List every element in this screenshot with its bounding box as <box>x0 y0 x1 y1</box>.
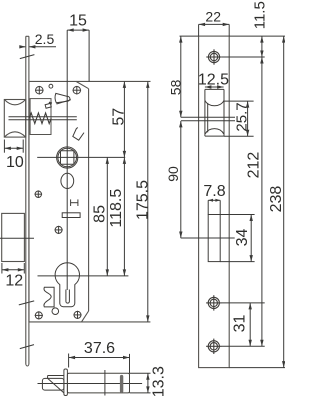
spool cutout (latch opening) <box>205 89 224 136</box>
top screw left <box>35 86 44 95</box>
top edge extension left <box>180 35 199 37</box>
oval follower hole <box>61 173 74 188</box>
cylinder centre line horizontal <box>38 275 129 277</box>
svg-text:10: 10 <box>6 154 24 171</box>
lower screw 1 <box>206 295 221 310</box>
deadbolt centre line <box>0 237 34 239</box>
dimension 25.7 <box>224 101 254 136</box>
dimension 15 <box>67 30 89 81</box>
euro cylinder hole <box>55 263 79 307</box>
svg-text:22: 22 <box>205 9 221 25</box>
spindle hub <box>57 147 78 168</box>
dimension 58 <box>180 36 182 117</box>
svg-text:85: 85 <box>92 205 109 223</box>
waist centre line 2 <box>181 120 235 122</box>
dimension 175.5 line <box>147 81 149 322</box>
small circle bottom <box>52 308 59 315</box>
slot centre line <box>181 237 235 239</box>
svg-text:37.6: 37.6 <box>84 340 115 357</box>
svg-text:7.8: 7.8 <box>203 183 225 200</box>
mid screw <box>55 226 63 234</box>
deadbolt (side view) <box>2 213 25 261</box>
dimension 31 <box>249 303 251 346</box>
strip break mark top <box>20 55 35 59</box>
H slot detail <box>71 199 78 206</box>
dimension 34 <box>220 215 254 262</box>
top screw hole <box>206 49 221 64</box>
latch body spring pin <box>120 377 123 392</box>
dimension 7.8 <box>208 200 220 214</box>
bottom screw left <box>35 311 43 319</box>
small tilted plate <box>45 102 51 108</box>
top screw right <box>73 86 82 95</box>
dimension 37.6 <box>69 354 130 374</box>
svg-text:34: 34 <box>234 229 251 247</box>
latch bolt protruding (side view) <box>4 100 25 138</box>
dimension 85 line <box>106 157 108 276</box>
latch body <box>67 373 129 393</box>
svg-text:12: 12 <box>5 273 23 290</box>
dimension 22 <box>199 24 230 36</box>
dimension 13.3 <box>130 373 151 393</box>
dimension 12.5 <box>205 86 224 88</box>
centre line bottom part <box>38 383 143 385</box>
deadbolt slot <box>208 215 220 262</box>
svg-text:175.5: 175.5 <box>134 180 151 220</box>
lever staple mark <box>73 128 84 141</box>
dimension 212 <box>261 57 263 346</box>
svg-text:238: 238 <box>268 186 285 213</box>
strip break mark bottom <box>20 345 34 349</box>
bottom screw right <box>73 311 81 319</box>
upper-mid screw <box>35 190 43 198</box>
dimension 90 <box>180 121 182 238</box>
svg-text:57: 57 <box>110 108 127 126</box>
bottom edge extension right <box>229 367 285 369</box>
dimension 10 <box>4 140 23 153</box>
screw1 centre line <box>222 56 265 58</box>
svg-text:212: 212 <box>246 152 263 179</box>
svg-text:58: 58 <box>167 79 183 95</box>
slot rectangle <box>62 213 80 218</box>
vertical centre line through hub <box>66 30 68 290</box>
waist centre line 1 <box>181 116 235 118</box>
svg-text:11.5: 11.5 <box>252 1 269 29</box>
dimension 57 line <box>123 81 125 157</box>
latch guide box inside case <box>30 99 51 135</box>
svg-text:15: 15 <box>69 13 87 30</box>
latch spring zigzag <box>29 113 51 124</box>
latch spring rod <box>9 117 77 120</box>
svg-text:25.7: 25.7 <box>234 102 251 131</box>
faceplate strip (side view) <box>26 36 29 366</box>
latch head <box>42 376 64 393</box>
strip break mark mid <box>19 301 34 305</box>
lower screw 2 <box>206 339 221 354</box>
lock case outline <box>29 81 151 322</box>
svg-text:12.5: 12.5 <box>198 72 229 89</box>
svg-text:31: 31 <box>232 315 249 333</box>
flange plate <box>64 369 68 396</box>
dimension 2.5 <box>20 46 56 48</box>
latch body inner line <box>104 370 106 396</box>
spindle centre line horizontal <box>37 156 125 158</box>
dimension 238 <box>283 36 285 368</box>
svg-text:13.3: 13.3 <box>151 366 168 397</box>
dimension 12 <box>2 263 24 274</box>
dimension 11.5 <box>261 36 263 57</box>
svg-text:90: 90 <box>165 166 181 182</box>
top edge extension right <box>229 35 285 37</box>
latch head wedge <box>55 93 71 104</box>
dimension 118.5 line <box>123 157 125 276</box>
spring clip hook <box>44 287 54 307</box>
faceplate outline <box>199 36 230 368</box>
small pin circle top <box>49 84 53 88</box>
svg-text:118.5: 118.5 <box>108 189 125 228</box>
svg-text:2.5: 2.5 <box>35 31 55 47</box>
